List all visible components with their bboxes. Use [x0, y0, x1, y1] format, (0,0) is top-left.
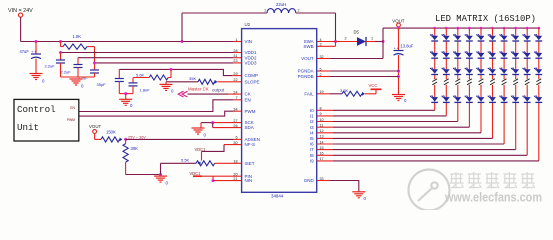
op-amp / IC U2 34844 body: [242, 29, 317, 193]
wire LED column 2: [445, 28, 447, 36]
LED column 5 row 1: [478, 36, 485, 41]
wire LED column 10 return to I9: [333, 160, 539, 162]
capacitor C 2.2uF (2): [77, 58, 79, 65]
svg-text:5: 5: [320, 67, 322, 71]
LED column 3 continuation marks: [455, 79, 460, 82]
resistor 150K: [94, 133, 96, 139]
wire 5.6K right to COMP: [168, 77, 171, 79]
wire VIN rail to IC pin 1: [21, 41, 233, 43]
ground 0 for GND pin: [352, 191, 365, 193]
LED column 7 row 3: [501, 69, 508, 74]
wire LED column 6: [492, 28, 494, 36]
wire 35K to ground: [166, 81, 198, 83]
wire 3.3K to VCC: [365, 93, 376, 95]
LED column 6 row 4: [489, 97, 496, 102]
LED column 10 row 4: [535, 97, 542, 102]
svg-text:VOUT: VOUT: [301, 56, 314, 61]
junction VDD3: [93, 61, 96, 64]
power VCC symbol: [371, 88, 382, 90]
svg-text:4: 4: [320, 38, 322, 42]
svg-text:EN: EN: [70, 106, 75, 110]
svg-text:PWM: PWM: [245, 109, 256, 114]
watermark CJK text (drawn strokes): [450, 172, 535, 189]
junction diode/VOUT vertical: [382, 40, 385, 43]
svg-text:www.elecfans.com: www.elecfans.com: [444, 190, 542, 205]
svg-text:1.0K: 1.0K: [73, 34, 82, 39]
wire LED column 6 return to I5: [333, 137, 493, 139]
wire LED column 8: [515, 28, 517, 36]
svg-text:2.2uF: 2.2uF: [45, 64, 56, 69]
wire 5.5K left to ground node: [160, 163, 162, 174]
svg-text:NIN: NIN: [245, 178, 253, 183]
svg-text:I7: I7: [310, 147, 314, 152]
wire VDD right vertical: [94, 47, 96, 70]
LED column 6 continuation marks: [490, 79, 495, 82]
wire LED column 1: [434, 28, 436, 36]
junction LED column 10 top: [538, 27, 541, 30]
svg-text:Unit: Unit: [17, 122, 39, 133]
svg-text:29: 29: [233, 72, 237, 76]
wire SWB stub jog: [317, 45, 336, 47]
wire LED column 1 return to I0: [333, 109, 435, 111]
off-page connector Master CK: [178, 91, 183, 97]
svg-text:25V ~ 36V: 25V ~ 36V: [128, 135, 146, 139]
resistor 30K: [125, 139, 127, 143]
svg-text:2: 2: [320, 73, 322, 77]
junction VIN rail to 1.0K: [59, 40, 62, 43]
svg-text:I9: I9: [310, 158, 314, 163]
svg-text:7: 7: [235, 96, 237, 100]
wire PGNDB from IC pin 2: [317, 76, 330, 78]
junction at 47uF tap: [35, 40, 38, 43]
svg-text:23: 23: [233, 59, 237, 63]
resistor 3.3K: [342, 91, 362, 96]
svg-text:5.5K: 5.5K: [181, 157, 190, 162]
svg-text:Master CK: Master CK: [188, 87, 209, 92]
svg-text:6: 6: [235, 136, 237, 140]
junction NIN: [212, 179, 215, 182]
svg-text:COMP: COMP: [245, 73, 259, 78]
wire LED column 5 return to I4: [333, 132, 481, 134]
junction SCK/SDA: [211, 121, 214, 124]
wire 5.5K to ISET IC pin 18: [215, 162, 242, 164]
wire cap ground bus: [61, 76, 95, 78]
svg-text:2: 2: [345, 37, 347, 41]
junction PGNDB: [397, 75, 400, 78]
LED column 4 row 2: [466, 53, 473, 58]
svg-text:20: 20: [233, 173, 237, 177]
LED column 1 row 3: [431, 69, 438, 74]
control unit box: [14, 99, 79, 141]
junction LED column 9 top: [526, 27, 529, 30]
wire NIN to IC pin 21: [213, 180, 242, 182]
LED column 6 row 3: [489, 69, 496, 74]
wire NF-S from IC pin 30: [224, 144, 242, 146]
svg-text:33: 33: [320, 177, 324, 181]
LED column 8 continuation marks: [513, 79, 518, 82]
svg-text:output: output: [212, 88, 225, 93]
watermark logo circle: [409, 170, 450, 211]
svg-text:22: 22: [233, 78, 237, 82]
wire VDD2 to IC pin 31: [78, 57, 233, 59]
LED column 8 row 1: [512, 36, 519, 41]
resistor R 1.0K: [60, 42, 62, 47]
LED column 4 row 3: [466, 69, 473, 74]
svg-text:I0: I0: [310, 108, 314, 113]
LED column 3 row 2: [454, 53, 461, 58]
svg-text:2.2uF: 2.2uF: [61, 70, 72, 75]
LED column 7 row 1: [501, 36, 508, 41]
LED column 9 row 3: [524, 69, 531, 74]
wire VIN vertical drop: [20, 17, 22, 41]
wire LED column 10: [538, 28, 540, 36]
ground 0 divider: [154, 175, 167, 177]
LED column 9 row 1: [524, 36, 531, 41]
svg-text:LED MATRIX (16S10P): LED MATRIX (16S10P): [435, 14, 536, 24]
junction LED column 2 top: [445, 27, 448, 30]
wire divider to ADSEN IC pin 6: [126, 138, 233, 140]
wire SCK from IC pin 27: [213, 122, 242, 124]
wire GND from IC pin 33: [317, 180, 330, 182]
LED column 10 row 1: [535, 36, 542, 41]
inductor L 22uH: [267, 9, 274, 13]
wire LED column 2 return to I1: [333, 115, 446, 117]
svg-text:+ +: + +: [394, 46, 399, 50]
wire SLOPE to IC pin 22: [218, 81, 242, 83]
svg-text:I3: I3: [310, 125, 314, 130]
svg-text:I6: I6: [310, 142, 314, 147]
LED column 9 row 4: [524, 97, 531, 102]
svg-text:PGNDA: PGNDA: [298, 69, 314, 74]
resistor 5.5K: [198, 161, 201, 165]
svg-text:47uF: 47uF: [20, 49, 30, 54]
wire LED column 5: [480, 28, 482, 36]
LED column 2 row 3: [443, 69, 450, 74]
LED column 8 row 2: [512, 53, 519, 58]
junction LED column 8 top: [514, 27, 517, 30]
wire LED matrix top rail: [383, 27, 539, 29]
svg-text:VIN: VIN: [245, 39, 253, 44]
svg-text:I4: I4: [310, 130, 314, 135]
svg-text:30: 30: [233, 141, 237, 145]
svg-text:PWM: PWM: [67, 118, 75, 122]
svg-text:FAIL: FAIL: [304, 91, 314, 96]
junction LED column 7 top: [503, 27, 506, 30]
wire LED column 9 return to I8: [333, 154, 527, 156]
svg-text:31: 31: [233, 54, 237, 58]
LED column 8 row 3: [512, 69, 519, 74]
capacitor C 2.2uF (1): [60, 53, 62, 61]
svg-text:SWB: SWB: [303, 44, 313, 49]
wire switch node to diode: [336, 41, 358, 43]
node VOUT terminal circle: [397, 23, 401, 27]
wire VDD3 to IC pin 23: [95, 62, 234, 64]
svg-text:SLOPE: SLOPE: [245, 79, 260, 84]
junction VIN rail to inductor branch: [181, 40, 184, 43]
wire inductor to switch node: [296, 12, 336, 14]
wire SDA from IC pin 26: [212, 123, 214, 128]
svg-text:I5: I5: [310, 136, 314, 141]
wire PIN to IC pin 20: [202, 175, 242, 177]
svg-text:D5: D5: [354, 30, 360, 35]
LED column 1 continuation marks: [432, 79, 437, 82]
LED column 7 row 4: [501, 97, 508, 102]
wire VOUT pin 32 to riser: [317, 58, 330, 60]
LED column 9 continuation marks: [525, 79, 530, 82]
wire NIN tie vertical: [212, 176, 214, 180]
svg-text:CK: CK: [245, 92, 251, 97]
svg-text:GND: GND: [304, 178, 315, 183]
wire LED column 8 return to I7: [333, 149, 516, 151]
svg-text:30K: 30K: [131, 146, 139, 151]
wire PWM from control unit to IC pin 34: [79, 111, 233, 116]
wire COMP from IC pin 29: [232, 75, 242, 77]
svg-text:19: 19: [320, 90, 324, 94]
capacitor 35pF: [118, 69, 120, 78]
svg-text:+ +: + +: [31, 50, 36, 54]
junction COMP/5.6K: [170, 68, 173, 71]
LED column 3 row 3: [454, 69, 461, 74]
wire CK to IC pin 24: [188, 93, 229, 95]
svg-text:28: 28: [233, 49, 237, 53]
svg-text:35pF: 35pF: [97, 82, 107, 87]
svg-text:VOUT: VOUT: [89, 124, 102, 129]
svg-text:26: 26: [233, 124, 237, 128]
wire SWA stub: [317, 41, 336, 43]
svg-text:SDA: SDA: [245, 125, 254, 130]
power VDC1 bar: [193, 175, 202, 177]
svg-text:27: 27: [233, 119, 237, 123]
wire EN from control unit to IC pin 7: [79, 100, 233, 112]
wire diode to VOUT node: [366, 41, 375, 43]
diode D5: [357, 37, 366, 46]
svg-text:24: 24: [233, 90, 237, 94]
svg-text:3: 3: [320, 43, 322, 47]
capacitor 47uF: [35, 42, 37, 55]
wire LED column 3 return to I2: [333, 121, 458, 123]
LED column 1 row 1: [431, 36, 438, 41]
svg-text:I2: I2: [310, 119, 314, 124]
svg-text:NF-S: NF-S: [245, 142, 256, 147]
junction VDD1: [59, 51, 62, 54]
svg-text:2.2uF: 2.2uF: [78, 76, 89, 81]
LED column 4 continuation marks: [467, 79, 472, 82]
junction divider node: [124, 138, 127, 141]
svg-text:18: 18: [233, 160, 237, 164]
svg-text:22uH: 22uH: [276, 2, 286, 7]
svg-text:Control: Control: [17, 104, 56, 115]
svg-text:U2: U2: [245, 22, 251, 27]
resistor 5.6K: [149, 75, 168, 80]
svg-text:VDD3: VDD3: [245, 61, 258, 66]
svg-text:1.8nF: 1.8nF: [140, 88, 151, 93]
LED column 1 row 2: [431, 53, 438, 58]
capacitor 1.8nF: [132, 78, 134, 83]
svg-text:34844: 34844: [271, 194, 284, 199]
junction LED column 3 top: [457, 27, 460, 30]
junction LED column 1 top: [433, 27, 436, 30]
capacitor C 2.2uF (3): [90, 69, 99, 71]
ground 0 below 47uF: [30, 73, 43, 75]
LED column 10 continuation marks: [536, 79, 541, 82]
wire 5.6K left to 1.8nF: [133, 77, 149, 79]
svg-text:ISET: ISET: [245, 161, 255, 166]
wire VOUT vertical riser: [382, 28, 384, 58]
wire 30K bottom to ground node: [126, 174, 161, 176]
LED column 2 row 4: [443, 97, 450, 102]
svg-text:13.8uF: 13.8uF: [401, 44, 414, 49]
LED column 5 continuation marks: [479, 79, 484, 82]
LED column 5 row 2: [478, 53, 485, 58]
LED column 4 row 4: [466, 97, 473, 102]
node VOUT terminal circle (divider): [93, 130, 97, 134]
LED column 6 row 1: [489, 36, 496, 41]
LED column 3 row 1: [454, 36, 461, 41]
svg-text:32: 32: [320, 55, 324, 59]
LED column 3 row 4: [454, 97, 461, 102]
ground 0 slope: [160, 83, 173, 85]
junction PGNDA: [397, 70, 400, 73]
svg-text:PGNDB: PGNDB: [298, 74, 314, 79]
node VIN terminal circle: [19, 13, 23, 17]
svg-text:VCC: VCC: [369, 83, 378, 88]
svg-text:1: 1: [235, 38, 237, 42]
LED column 2 continuation marks: [444, 79, 449, 82]
svg-text:2: 2: [298, 9, 300, 13]
svg-text:5.6K: 5.6K: [136, 73, 145, 78]
wire LED column 4 return to I3: [333, 126, 469, 128]
svg-text:150K: 150K: [106, 130, 116, 135]
LED column 7 row 2: [501, 53, 508, 58]
svg-text:VDC1: VDC1: [190, 171, 202, 176]
wire LED column 4: [468, 28, 470, 36]
resistor 35K: [198, 79, 215, 84]
LED column 5 row 3: [478, 69, 485, 74]
ground 0 comp network: [125, 94, 127, 100]
junction divider ground: [159, 173, 162, 176]
LED column 6 row 2: [489, 53, 496, 58]
junction LED column 6 top: [491, 27, 494, 30]
wire VOUT stem: [398, 27, 400, 28]
wire top rail to inductor: [182, 12, 267, 14]
wire FAIL from IC pin 19: [317, 93, 330, 95]
svg-text:EN: EN: [245, 97, 251, 102]
capacitor 13.8uF: [398, 28, 400, 50]
ground 0 below 2.2uF caps: [70, 78, 83, 80]
LED column 4 row 1: [466, 36, 473, 41]
LED column 10 row 2: [535, 53, 542, 58]
svg-text:I1: I1: [310, 114, 314, 119]
LED column 10 row 3: [535, 69, 542, 74]
svg-text:21: 21: [233, 177, 237, 181]
wire LED column 7: [503, 28, 505, 36]
wire up from VIN rail: [181, 13, 183, 42]
LED column 7 continuation marks: [502, 79, 507, 82]
svg-text:34: 34: [233, 108, 237, 112]
junction VOUT on rail: [397, 27, 400, 30]
junction switch node SWA/SWB: [334, 40, 337, 43]
wire PGNDA from IC pin 5: [317, 70, 330, 72]
svg-text:I8: I8: [310, 153, 314, 158]
LED column 5 row 4: [478, 97, 485, 102]
svg-text:35K: 35K: [189, 76, 196, 81]
LED column 8 row 4: [512, 97, 519, 102]
LED column 1 row 4: [431, 97, 438, 102]
wire LED column 7 return to I6: [333, 143, 504, 145]
junction LED column 4 top: [468, 27, 471, 30]
LED column 2 row 1: [443, 36, 450, 41]
ground 0 below 13.8uF: [392, 94, 405, 96]
LED column 2 row 2: [443, 53, 450, 58]
wire comp ground bus: [119, 93, 133, 95]
wire VDD1 to IC pin 28: [61, 52, 234, 54]
junction LED column 5 top: [480, 27, 483, 30]
svg-text:1: 1: [264, 9, 266, 13]
junction comp ground: [124, 92, 127, 95]
LED column 9 row 2: [524, 53, 531, 58]
ground 0 for SCK/SDA: [200, 123, 202, 128]
svg-text:1: 1: [371, 37, 373, 41]
wire LED column 9: [526, 28, 528, 36]
wire LED column 3: [457, 28, 459, 36]
